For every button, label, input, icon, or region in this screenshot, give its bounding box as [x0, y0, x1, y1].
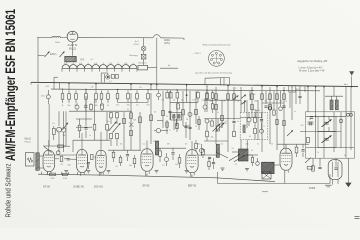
- svg-text:30: 30: [154, 112, 156, 114]
- FM mid small marks: [308, 121, 314, 123]
- vline x292 upper: [291, 86, 293, 88]
- svg-text:50: 50: [225, 121, 227, 123]
- vline x241 down: [240, 140, 242, 149]
- vline x277 upper: [276, 86, 278, 88]
- tube V3 ECH81: [96, 150, 106, 172]
- mid verticals x163-196: [162, 91, 164, 128]
- svg-text:10k: 10k: [127, 104, 130, 106]
- wire top rail right of rectifier: [78, 36, 153, 39]
- vline x140 50k box: [139, 112, 141, 150]
- FM inner box lower: [318, 132, 336, 148]
- mid components x163-196: [162, 110, 165, 115]
- svg-text:0,1: 0,1: [61, 164, 64, 166]
- wire mid horizontal y146 left: [43, 145, 66, 147]
- bottom loop wire (feedback): [218, 172, 331, 183]
- svg-text:0,1: 0,1: [232, 148, 235, 150]
- power transformer core: [65, 56, 76, 61]
- svg-text:2000: 2000: [252, 94, 256, 96]
- svg-text:0,5: 0,5: [202, 100, 205, 102]
- vline x157 lower continue: [156, 84, 158, 90]
- wire top rail end tick: [183, 38, 185, 40]
- hline y120 segment: [157, 119, 163, 121]
- svg-text:10k: 10k: [279, 100, 282, 102]
- svg-text:1k: 1k: [61, 105, 63, 107]
- svg-text:Rohde und Schwarz: Rohde und Schwarz: [4, 163, 13, 217]
- wires switch to T6: [216, 152, 228, 158]
- switch bank boxes: [110, 113, 113, 118]
- extra vline x94.5 segment: [94, 99, 96, 112]
- hline y102.5 x117-148: [118, 102, 149, 104]
- fuse choke L1 on top rail: [52, 37, 60, 38]
- tube V2 pin drop: [80, 172, 82, 174]
- vlines right-mid: [206, 86, 208, 112]
- svg-text:0,1: 0,1: [162, 165, 165, 167]
- FM coil hatch: [330, 100, 333, 110]
- voltage selector cluster under heater row: [106, 75, 110, 79]
- svg-text:EF 80: EF 80: [43, 185, 50, 188]
- svg-text:50: 50: [120, 143, 122, 145]
- cap between T1 T2: [58, 145, 64, 148]
- lower pieces cluster B: [177, 104, 180, 109]
- components above tube3: [93, 124, 96, 130]
- FM vlines: [315, 112, 317, 158]
- extra diagonal switch right-mid: [216, 123, 225, 133]
- bus AVC: [51, 89, 320, 91]
- hline y118.6 right-mid: [204, 118, 240, 120]
- tube V3 pin drop: [99, 172, 101, 175]
- rectifier tube 2xAZ11: [67, 31, 78, 42]
- svg-text:25k: 25k: [210, 137, 213, 139]
- hline y100 right: [204, 99, 241, 101]
- extra verticals middle band lower: [166, 120, 168, 134]
- wire output transformer to tube: [274, 164, 280, 166]
- svg-text:(1k): (1k): [56, 130, 59, 132]
- tube V6 pin drop: [284, 170, 286, 183]
- svg-text:50: 50: [186, 119, 188, 121]
- svg-text:500: 500: [67, 165, 70, 167]
- wire tube4 top: [146, 141, 148, 149]
- electrolytic C x75: [75, 105, 79, 109]
- bus left end tick: [30, 82, 32, 84]
- svg-text:1M: 1M: [167, 143, 170, 145]
- vline x131 upper: [130, 83, 132, 90]
- wire vertical x38 lower: [37, 84, 39, 153]
- svg-text:L verst. 4,5cm (a) = 42°: L verst. 4,5cm (a) = 42°: [299, 66, 323, 69]
- svg-text:220V~: 220V~: [50, 53, 58, 56]
- corner printing marks: [355, 215, 360, 217]
- extra small parts right band: [264, 105, 267, 107]
- svg-text:(25V): (25V): [134, 44, 139, 46]
- hline y117.5 right: [240, 117, 262, 119]
- rv x277 y122: [276, 119, 278, 124]
- long vline x96: [95, 84, 97, 90]
- hline y102.3: [170, 101, 198, 103]
- component cluster A (x62-112): [62, 90, 64, 93]
- small boxes near tube1 right: [60, 156, 63, 161]
- wire tube1 top: [48, 146, 50, 150]
- wire hop over x157: [153, 35, 161, 38]
- wire FM coil tops: [331, 96, 333, 100]
- svg-text:AM/FM-Empfänger ESF BN 15061: AM/FM-Empfänger ESF BN 15061: [3, 9, 18, 161]
- trimmer dumbbell: [346, 113, 349, 116]
- tube V7 ECC85 (FM box): [328, 160, 342, 180]
- oscillator coil hatch bar near T4: [155, 141, 158, 155]
- svg-text:EABC 80: EABC 80: [74, 185, 85, 188]
- ratio detector box outline: [240, 112, 268, 139]
- bus stubs up: [204, 78, 206, 85]
- left pot cluster fix - oval: [61, 128, 65, 132]
- ground arrow bottom right: [347, 158, 349, 183]
- svg-text:500: 500: [147, 104, 150, 106]
- extra vline x86 segment: [85, 96, 87, 119]
- heater series parts: [50, 173, 56, 176]
- FM box bottom components: [312, 166, 315, 171]
- heater winding taps: [61, 68, 63, 71]
- dial lamp La1: [141, 46, 146, 51]
- svg-text:0,1: 0,1: [235, 164, 238, 166]
- svg-text:220k: 220k: [50, 178, 54, 180]
- hline y148 x155-186: [155, 147, 186, 149]
- tick vline x54 between rail and bus: [53, 77, 55, 89]
- caps under y104 row: [84, 105, 87, 107]
- svg-text:2k: 2k: [195, 126, 197, 128]
- tube V1 EF80: [43, 150, 55, 171]
- tube V4 EF89: [141, 149, 153, 171]
- speaker box: [262, 172, 271, 179]
- svg-text:+65: +65: [296, 89, 299, 91]
- extra parts middle band lower: [166, 122, 168, 127]
- wire tube2 top: [81, 143, 83, 150]
- tick vline x59.5: [59, 83, 61, 89]
- ground dashes under T7: [325, 184, 332, 186]
- antenna symbol: [349, 71, 354, 75]
- svg-text:2000: 2000: [254, 100, 258, 102]
- svg-text:1n: 1n: [225, 123, 227, 125]
- hline y103 right: [262, 102, 284, 104]
- svg-text:25: 25: [185, 143, 187, 145]
- extra ground symbols at tube bottoms: [64, 170, 68, 172]
- variable capacitor 1: [324, 121, 329, 123]
- between T4-T5 parts: [159, 151, 162, 156]
- switch diagonals near output: [229, 154, 240, 161]
- svg-text:5k: 5k: [217, 112, 219, 114]
- hline y127 left above T2: [76, 126, 92, 128]
- vline x262 upper: [261, 86, 263, 88]
- svg-text:10n: 10n: [192, 100, 195, 102]
- vline x207 to bus: [206, 85, 208, 87]
- svg-text:50k: 50k: [133, 119, 136, 121]
- hline y107 right: [215, 106, 217, 108]
- variable capacitor 2: [324, 137, 329, 139]
- svg-text:0,1: 0,1: [143, 143, 146, 145]
- wires down to tube1 region: [65, 111, 67, 118]
- svg-text:2n: 2n: [237, 121, 239, 123]
- mid components second level: [176, 123, 179, 128]
- T7 pins down: [332, 180, 334, 185]
- svg-text:5k: 5k: [251, 150, 253, 152]
- svg-text:0,5M: 0,5M: [63, 178, 68, 180]
- tube V4 pin drop: [145, 171, 147, 176]
- svg-text:0,1: 0,1: [91, 59, 94, 61]
- wires ratio block out: [248, 154, 258, 156]
- parts right of IF near T5: [195, 143, 198, 148]
- tube socket top view: [209, 51, 225, 67]
- vline x308 upper: [307, 86, 309, 92]
- svg-text:5k: 5k: [271, 143, 273, 145]
- parts near x252 tube row: [251, 157, 253, 162]
- svg-text:50n: 50n: [107, 121, 110, 123]
- between T2-T3 parts: [91, 154, 94, 159]
- input transformer winding: [36, 153, 40, 171]
- svg-text:Netzspg.: Netzspg.: [129, 54, 138, 57]
- second corner mark: [262, 191, 268, 193]
- horizontal wire y111: [69, 110, 132, 112]
- svg-text:1n: 1n: [294, 111, 296, 113]
- svg-text:5k: 5k: [237, 100, 239, 102]
- FM box outline: [306, 112, 355, 158]
- wire selector feed: [38, 55, 45, 57]
- diode arrows near x236: [233, 96, 239, 100]
- rv x284 y123: [283, 120, 285, 125]
- FM inner vline x329: [328, 116, 330, 120]
- svg-text:10n: 10n: [175, 164, 178, 166]
- svg-text:abgeglichen bei Stellung „AM“: abgeglichen bei Stellung „AM“: [297, 60, 328, 63]
- output transformer hatch: [262, 162, 275, 173]
- svg-text:+105: +105: [45, 86, 49, 88]
- svg-text:M verst. 2,1cm (ab) = 42°: M verst. 2,1cm (ab) = 42°: [299, 70, 325, 73]
- svg-text:Röhrensockel (Unteransicht): Röhrensockel (Unteransicht): [203, 43, 231, 46]
- hline y141 x204-240: [204, 140, 228, 142]
- svg-text:10000: 10000: [251, 109, 256, 111]
- svg-text:50mΩ: 50mΩ: [25, 139, 31, 141]
- svg-text:50n: 50n: [67, 105, 70, 107]
- cluster B ovals and boxes: [157, 93, 161, 97]
- ratio transformer hatch block: [238, 149, 248, 161]
- mains switch block: [138, 65, 148, 70]
- bus heater bottom: [38, 174, 275, 181]
- wire heater row to right components: [160, 67, 178, 69]
- switch bank diagonals: [109, 122, 117, 132]
- FM hlines: [306, 115, 346, 117]
- vline x346 trimmer: [345, 87, 347, 104]
- junction small box on heater row end: [148, 67, 157, 69]
- long vline x86 T2 area: [85, 90, 87, 93]
- svg-text:(25V): (25V): [164, 42, 170, 45]
- input jack box: [26, 153, 35, 167]
- vline x151 upper: [150, 83, 152, 90]
- vline x324 upper: [323, 87, 325, 113]
- svg-text:30: 30: [127, 109, 129, 111]
- svg-text:0,5: 0,5: [267, 99, 270, 101]
- dots on avc bus: [62, 89, 63, 90]
- parts between T5-T6 lower: [208, 161, 210, 166]
- vline x247 down: [246, 140, 248, 149]
- svg-text:2k: 2k: [107, 105, 109, 107]
- svg-text:0,1: 0,1: [115, 166, 118, 168]
- diag arrow x290: [287, 130, 293, 136]
- svg-text:gesehen auf die Lötseite der F: gesehen auf die Lötseite der Fassung: [195, 72, 232, 75]
- wire top rail left: [37, 37, 52, 39]
- FM box top components: [310, 116, 313, 118]
- fuse Si1: [141, 54, 146, 59]
- hline y119 above T2: [76, 118, 92, 120]
- svg-text:50n: 50n: [129, 165, 132, 167]
- vline x334 upper: [333, 87, 335, 96]
- heater winding bumps: [62, 65, 137, 69]
- svg-text:Ant: Ant: [344, 83, 348, 86]
- svg-text:50: 50: [136, 104, 138, 106]
- svg-text:EF 89: EF 89: [143, 185, 150, 188]
- svg-text:1k: 1k: [317, 152, 319, 154]
- gnd marks right row: [221, 167, 225, 169]
- vertical wire from rail x38: [37, 38, 39, 83]
- svg-text:Netzsch.: Netzsch.: [138, 61, 147, 64]
- between T5-T6 parts: [202, 149, 205, 154]
- svg-text:34405: 34405: [309, 188, 316, 190]
- wire rectifier anode drop: [72, 42, 74, 56]
- component row y96 x117-148: [117, 90, 119, 93]
- svg-text:50n: 50n: [116, 104, 119, 106]
- vertical wire x157 from hop to bus: [156, 38, 158, 84]
- vline x315 upper: [315, 86, 317, 112]
- vline x131 with X mark: [130, 93, 132, 150]
- IF transformer T-A: [171, 113, 182, 120]
- tube V5 pin drop: [190, 173, 192, 178]
- wire tube3 top: [100, 132, 102, 150]
- components above tube2: [78, 125, 81, 131]
- mains selector arrow 1: [45, 51, 50, 57]
- hline y150 x108-140: [108, 149, 141, 151]
- components right of T6: [295, 147, 298, 153]
- svg-text:50n: 50n: [197, 143, 200, 145]
- wire tube6 top: [285, 144, 287, 148]
- tick x305: [304, 86, 306, 92]
- vline x186 upper: [186, 84, 188, 91]
- svg-text:470: 470: [301, 125, 304, 127]
- svg-text:ECH 81: ECH 81: [94, 185, 103, 188]
- resistor R1 10k oval: [46, 95, 50, 99]
- svg-text:2k: 2k: [166, 116, 168, 118]
- tube V1 pin drop: [47, 172, 49, 175]
- switch bank wires: [110, 111, 112, 114]
- wire input to tube1: [39, 155, 43, 157]
- svg-text:20k: 20k: [209, 100, 212, 102]
- between T1-T2 extra: [56, 151, 60, 155]
- svg-text:+85: +85: [90, 87, 93, 89]
- FM small parts: [309, 122, 311, 125]
- input diagonal lead: [44, 147, 52, 153]
- vline x151 components: [150, 93, 152, 144]
- heater winding baseline: [62, 67, 137, 69]
- svg-text:+72: +72: [233, 88, 236, 90]
- ratio det parts: [247, 118, 251, 122]
- extra parts right-mid: [211, 121, 214, 126]
- diode arrows stack x243: [241, 95, 246, 99]
- svg-text:1n: 1n: [223, 100, 225, 102]
- svg-text:1n: 1n: [89, 135, 91, 137]
- svg-text:+78: +78: [138, 87, 141, 89]
- svg-text:68: 68: [344, 155, 346, 157]
- tube V6 EL84: [280, 148, 292, 170]
- coil winding bar x216-219: [216, 144, 219, 157]
- vline x228 upper: [227, 85, 229, 87]
- svg-text:1k: 1k: [208, 121, 210, 123]
- vline x124: [123, 112, 125, 150]
- svg-text:50Hz: 50Hz: [55, 42, 60, 44]
- svg-text:NTr: NTr: [81, 59, 85, 62]
- svg-text:+ 250 V: + 250 V: [193, 53, 201, 55]
- svg-text:Phono: Phono: [25, 142, 32, 144]
- FM inner box upper: [318, 116, 336, 131]
- between T3-T4 cluster: [112, 152, 115, 157]
- right-mid component row y94-100: [206, 94, 209, 100]
- svg-text:0,1: 0,1: [109, 81, 112, 83]
- vline x49 left mid: [48, 104, 50, 146]
- extra verticals x244-300 upper band: [244, 100, 246, 112]
- svg-text:50: 50: [173, 100, 175, 102]
- right-mid extra chains x207-238 y114-140: [205, 119, 209, 123]
- svg-text:22: 22: [309, 119, 311, 121]
- hline y144 over T6: [277, 143, 309, 145]
- vline x69 upper: [68, 84, 70, 90]
- svg-text:5k: 5k: [249, 136, 251, 138]
- heater bus ticks: [41, 172, 43, 175]
- bus main B+ (slopes with scan): [31, 82, 358, 86]
- boxes second row right-mid: [215, 104, 218, 109]
- svg-text:50k: 50k: [62, 135, 65, 137]
- svg-text:2n: 2n: [257, 143, 259, 145]
- more bus tick junction dots: [68, 83, 69, 84]
- svg-text:8: 8: [263, 126, 264, 128]
- left potentiometer cluster (x52-76, y118-140): [58, 111, 60, 126]
- ec x270: [268, 106, 272, 110]
- hline y140 under T2-T3: [73, 139, 110, 141]
- mains selector arrow 2: [60, 51, 65, 57]
- tube V5 EBF80: [186, 150, 198, 173]
- svg-text:50: 50: [285, 101, 287, 103]
- tube V2 EABC80: [77, 150, 88, 173]
- small box near bus right: [289, 86, 296, 92]
- svg-text:8: 8: [170, 130, 171, 132]
- svg-text:0,5: 0,5: [221, 143, 224, 145]
- wire tube5 top: [191, 141, 193, 150]
- svg-text:EBF 80: EBF 80: [188, 185, 197, 188]
- wire lamp-fuse chain: [143, 38, 145, 47]
- cap x300 under bus: [298, 95, 301, 97]
- svg-text:50n: 50n: [100, 105, 103, 107]
